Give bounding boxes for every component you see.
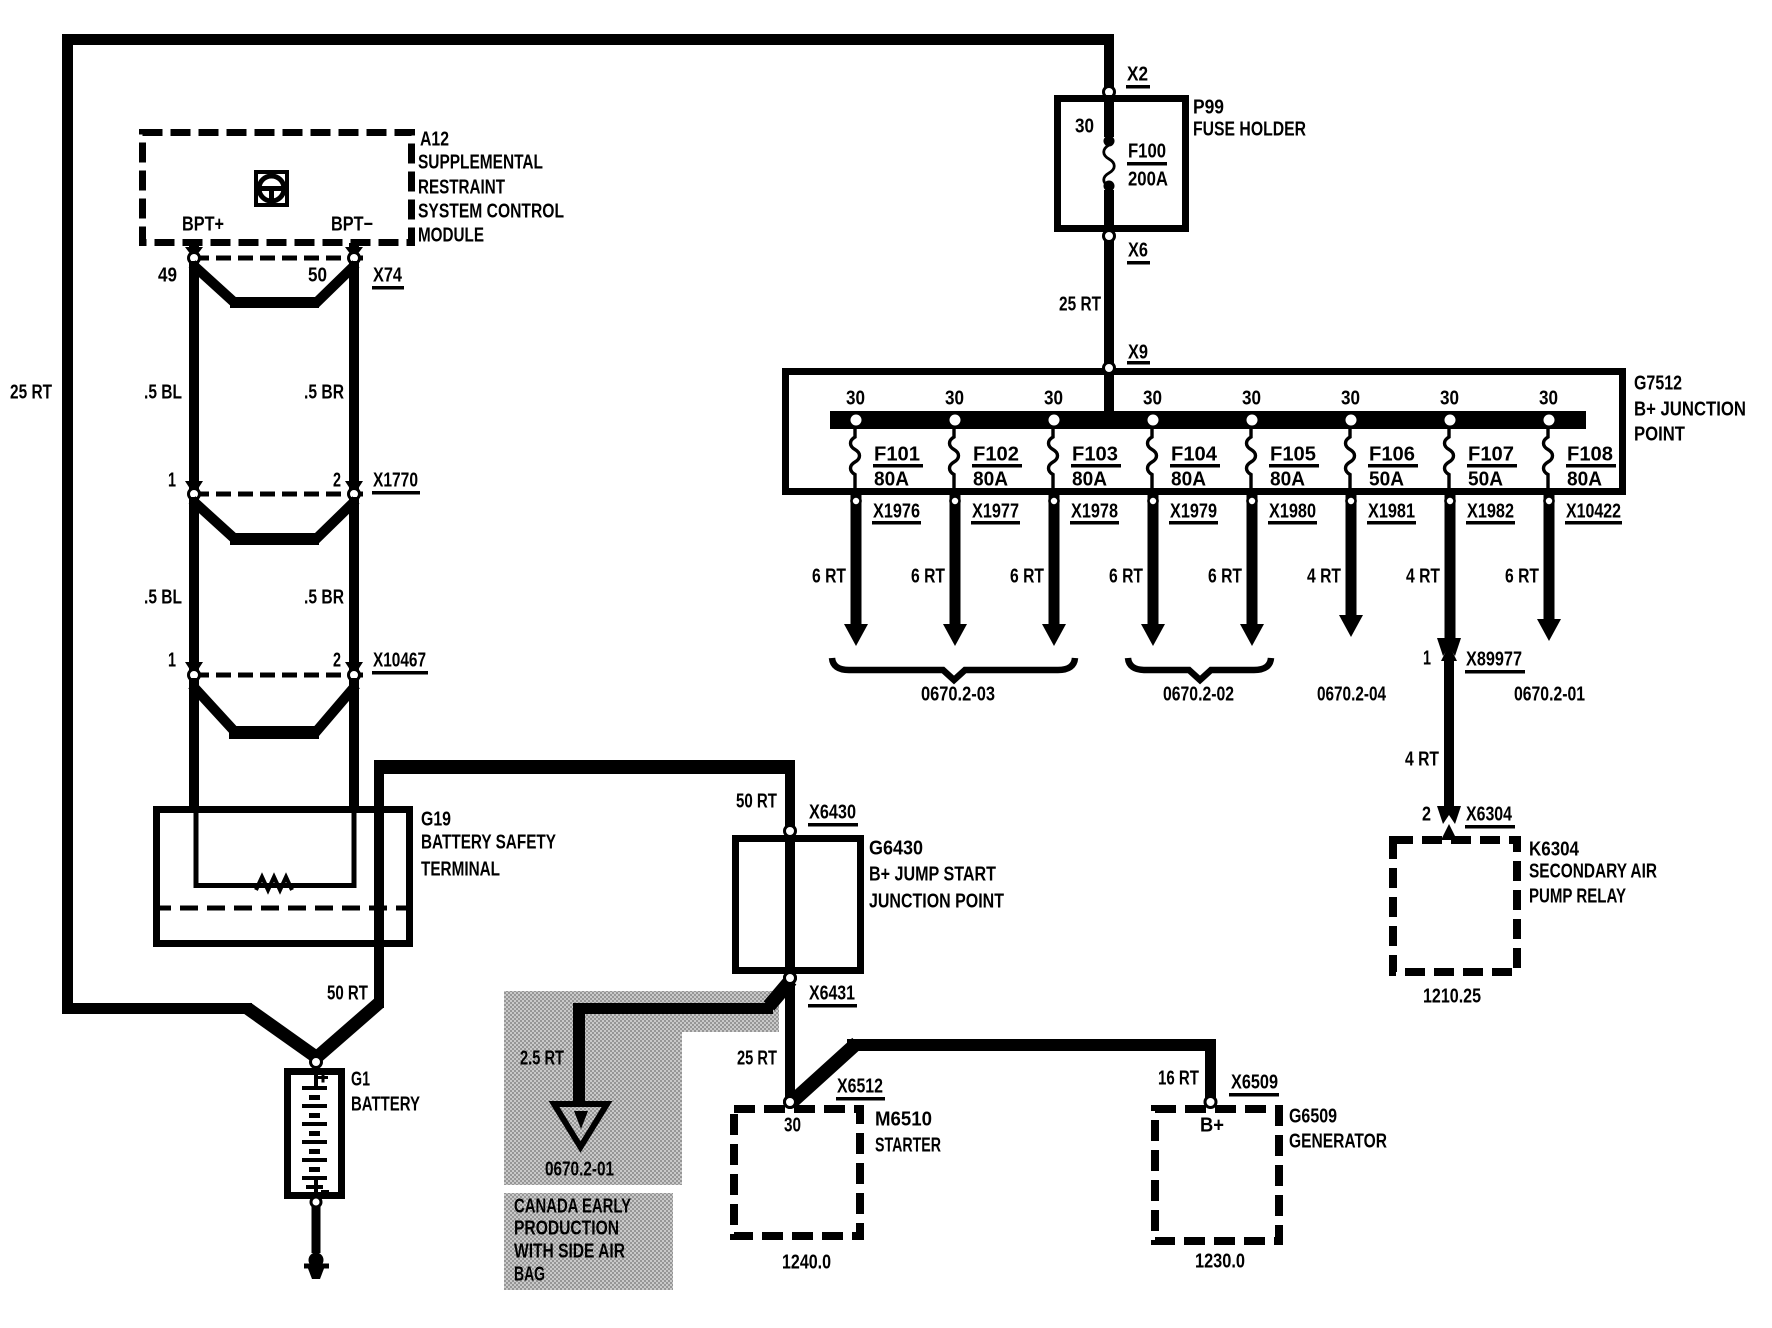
svg-text:K6304: K6304: [1529, 839, 1580, 861]
wire: battery positive left diagonal: [243, 1003, 320, 1063]
svg-text:4 RT: 4 RT: [1406, 566, 1440, 588]
svg-text:B+ JUNCTION: B+ JUNCTION: [1634, 399, 1746, 421]
svg-text:FUSE HOLDER: FUSE HOLDER: [1193, 119, 1306, 141]
B+ distribution bus bar: [830, 411, 1586, 429]
svg-text:F102: F102: [973, 444, 1019, 466]
wire: B+ main supply left riser: [62, 34, 73, 1008]
svg-text:X1978: X1978: [1071, 501, 1118, 523]
wire 16 RT: horizontal run to generator: [847, 1039, 1216, 1051]
svg-text:16 RT: 16 RT: [1158, 1068, 1199, 1090]
svg-text:25 RT: 25 RT: [10, 382, 52, 404]
svg-text:SECONDARY AIR: SECONDARY AIR: [1529, 861, 1657, 883]
svg-text:X1982: X1982: [1467, 501, 1514, 523]
connector X2 node: [1104, 87, 1115, 98]
svg-text:4 RT: 4 RT: [1307, 566, 1341, 588]
wire: drop from top bus to connector X2: [1104, 40, 1114, 92]
pin stub BPT+ into X74: [189, 243, 199, 251]
svg-text:GENERATOR: GENERATOR: [1289, 1131, 1387, 1153]
svg-text:.5 BR: .5 BR: [304, 587, 344, 609]
wire .5 BL (X1770 to X10467): [189, 497, 199, 670]
svg-text:6 RT: 6 RT: [1208, 566, 1242, 588]
connector X1977 node: [951, 497, 960, 506]
component G6509 generator (dashed box): [1155, 1109, 1279, 1241]
component M6510 starter (dashed box): [734, 1109, 860, 1236]
bus tap node (F107): [1445, 415, 1456, 426]
component P99 fuse holder (box): [1058, 99, 1186, 229]
svg-text:50 RT: 50 RT: [736, 791, 777, 813]
fuse F105 80A element: [1247, 429, 1256, 492]
svg-text:X6512: X6512: [837, 1076, 883, 1098]
component G6430 B+ jump start junction point (box): [736, 839, 861, 971]
module A12 supplemental restraint system control module (dashed box): [143, 133, 412, 243]
fuse F107 50A element: [1445, 429, 1454, 492]
fuse F101 80A element: [851, 429, 860, 492]
component G1 battery (case): [288, 1072, 342, 1196]
svg-text:B+ JUMP START: B+ JUMP START: [869, 864, 996, 886]
svg-text:30: 30: [1440, 388, 1459, 410]
svg-text:80A: 80A: [1171, 469, 1206, 491]
svg-text:BATTERY: BATTERY: [351, 1094, 420, 1116]
connector X10467 pin 2 socket: [349, 670, 360, 681]
svg-text:80A: 80A: [1567, 469, 1602, 491]
svg-text:30: 30: [784, 1115, 801, 1137]
wire .5 BL (pin 49 to X1770 pin 1): [189, 261, 199, 489]
X10467 pin 1 terminal arrow: [185, 662, 203, 676]
svg-text:30: 30: [1143, 388, 1162, 410]
wire 6 RT (output of F101) with arrow: [851, 495, 862, 626]
svg-text:0670.2-03: 0670.2-03: [921, 684, 995, 706]
svg-text:G6509: G6509: [1289, 1106, 1337, 1128]
bus tap node (F106): [1346, 415, 1357, 426]
svg-text:2: 2: [333, 650, 341, 672]
svg-text:1: 1: [168, 650, 176, 672]
svg-text:30: 30: [1075, 116, 1094, 138]
svg-text:30: 30: [1242, 388, 1261, 410]
wire: 50 RT down to X6430: [785, 760, 795, 828]
svg-text:1: 1: [1423, 648, 1431, 670]
svg-text:50A: 50A: [1468, 469, 1503, 491]
fuse F100 element (squiggle): [1104, 136, 1115, 147]
svg-text:0670.2-01: 0670.2-01: [1514, 684, 1585, 706]
wire 4 RT (output of F107) to X89977: [1445, 495, 1456, 640]
svg-text:0670.2-01: 0670.2-01: [545, 1159, 614, 1181]
svg-text:.5 BL: .5 BL: [144, 382, 182, 404]
svg-text:PUMP RELAY: PUMP RELAY: [1529, 886, 1626, 908]
svg-text:X6: X6: [1128, 240, 1148, 262]
svg-text:80A: 80A: [1072, 469, 1107, 491]
svg-text:CANADA EARLY: CANADA EARLY: [514, 1196, 631, 1218]
svg-text:G19: G19: [421, 809, 451, 831]
svg-text:50: 50: [308, 265, 327, 287]
svg-text:BATTERY SAFETY: BATTERY SAFETY: [421, 832, 557, 854]
connector X6430 node: [785, 826, 796, 837]
svg-text:1230.0: 1230.0: [1195, 1251, 1245, 1273]
bus tap node (F103): [1049, 415, 1060, 426]
svg-text:30: 30: [1044, 388, 1063, 410]
svg-text:50A: 50A: [1369, 469, 1404, 491]
connector X89977 (inline, F107 wire): [1437, 638, 1461, 656]
connector X9 node on G7512: [1104, 363, 1115, 374]
G19 internal element (squib housing): [196, 810, 354, 886]
harness brace (F101-F103 outputs): [832, 658, 1075, 680]
svg-text:F103: F103: [1072, 444, 1118, 466]
wire (X10467 pin 1 to G19): [189, 678, 199, 808]
wire: F100 to X6: [1104, 190, 1114, 236]
wire 6 RT (output of F105) with arrow: [1247, 495, 1258, 626]
node X6512 at starter terminal 30: [785, 1097, 796, 1108]
svg-text:6 RT: 6 RT: [1505, 566, 1539, 588]
wire 16 RT: starter to generator (diagonal): [793, 1043, 857, 1101]
svg-text:X1979: X1979: [1170, 501, 1217, 523]
icon: steering wheel / airbag symbol inside A12: [256, 172, 287, 205]
bus tap node (F105): [1247, 415, 1258, 426]
svg-text:JUNCTION POINT: JUNCTION POINT: [869, 891, 1004, 913]
wire through G6430: [785, 838, 795, 974]
X10467 pin 2 terminal arrow: [345, 662, 363, 676]
svg-text:SYSTEM CONTROL: SYSTEM CONTROL: [418, 201, 564, 223]
connector X10467 pin 1 socket: [189, 670, 200, 681]
svg-text:P99: P99: [1193, 97, 1224, 119]
svg-text:X10422: X10422: [1566, 501, 1621, 523]
svg-text:MODULE: MODULE: [418, 225, 484, 247]
svg-text:F104: F104: [1171, 444, 1218, 466]
wire: X9 into bus bar: [1104, 372, 1114, 424]
connector X1980 node: [1248, 497, 1257, 506]
option region (gray): Canada early production wiring: [504, 991, 779, 1032]
X1770 pin 1 terminal arrow: [185, 481, 203, 495]
wire 6 RT (output of F104) with arrow: [1148, 495, 1159, 626]
wire: battery negative to ground: [312, 1206, 321, 1253]
wire 25 RT: X6431 to starter: [785, 982, 795, 1102]
svg-text:200A: 200A: [1128, 169, 1168, 191]
wire 2.5 RT: X6431 branch to Canada option: [769, 980, 791, 1006]
svg-text:.5 BL: .5 BL: [144, 587, 182, 609]
bus tap node (F104): [1148, 415, 1159, 426]
wire: 50 RT drop through G19 to battery: [374, 760, 384, 1008]
node X6431 (redraw on top): [785, 973, 796, 984]
svg-text:X1976: X1976: [873, 501, 920, 523]
connector X1976 node: [852, 497, 861, 506]
connector X74 pin 49 socket: [189, 253, 200, 264]
svg-text:TERMINAL: TERMINAL: [421, 859, 500, 881]
wire: X2 into fuse F100: [1104, 95, 1114, 137]
node: battery positive terminal: [311, 1057, 322, 1068]
svg-text:6 RT: 6 RT: [1109, 566, 1143, 588]
svg-text:X74: X74: [373, 265, 403, 287]
battery cell plates: [302, 1086, 327, 1090]
battery positive plate lead and + mark: [314, 1071, 318, 1086]
G19 internal dashed line: [153, 906, 413, 911]
harness brace (F104-F105 outputs): [1128, 658, 1271, 680]
svg-text:BPT−: BPT−: [331, 214, 373, 236]
svg-text:X6304: X6304: [1466, 804, 1513, 826]
svg-text:30: 30: [945, 388, 964, 410]
twisted pair loop symbol below X74: [192, 264, 236, 304]
connector X74 pin 50 socket: [349, 253, 360, 264]
svg-text:X10467: X10467: [373, 650, 426, 672]
svg-text:F107: F107: [1468, 444, 1514, 466]
fuse F103 80A element: [1049, 429, 1058, 492]
battery negative plate lead and - mark: [314, 1178, 318, 1194]
svg-text:F108: F108: [1567, 444, 1613, 466]
svg-text:0670.2-04: 0670.2-04: [1317, 684, 1387, 706]
connector X1982 node: [1446, 497, 1455, 506]
twisted pair loop symbol below X10467: [192, 685, 236, 733]
fuse F104 80A element: [1148, 429, 1157, 492]
wire 6 RT (output of F103) with arrow: [1049, 495, 1060, 626]
wire .5 BR (X1770 to X10467): [349, 497, 359, 670]
svg-text:2.5 RT: 2.5 RT: [520, 1048, 564, 1070]
svg-text:G6430: G6430: [869, 838, 923, 860]
wire: battery positive right diagonal: [312, 998, 384, 1063]
svg-text:G1: G1: [351, 1069, 370, 1091]
connector X1770 pin 2 socket: [349, 489, 360, 500]
svg-text:BPT+: BPT+: [182, 214, 224, 236]
connector X1978 node: [1050, 497, 1059, 506]
connector X10422 node: [1545, 497, 1554, 506]
svg-text:F100: F100: [1128, 141, 1166, 163]
wire 25 RT: X6 to X9: [1104, 240, 1114, 368]
svg-text:1210.25: 1210.25: [1423, 986, 1481, 1008]
svg-text:X6430: X6430: [809, 802, 856, 824]
ground symbol (chassis ground): [304, 1253, 329, 1280]
bus tap node (F102): [950, 415, 961, 426]
svg-text:1240.0: 1240.0: [782, 1252, 831, 1274]
wire 50 RT: G19 to G6430 (B+ jump start feed): [374, 760, 795, 774]
svg-text:2: 2: [1422, 804, 1431, 826]
fuse F108 80A element: [1544, 429, 1553, 492]
svg-text:4 RT: 4 RT: [1405, 749, 1439, 771]
svg-text:X1981: X1981: [1368, 501, 1415, 523]
svg-text:WITH SIDE AIR: WITH SIDE AIR: [514, 1241, 625, 1263]
wire: battery positive V apex: [305, 1050, 327, 1066]
svg-text:X1770: X1770: [373, 470, 418, 492]
relay K6304 secondary air pump relay (dashed box): [1393, 840, 1517, 972]
wire: drop to X6509: [1205, 1039, 1216, 1099]
bus tap node (F108): [1544, 415, 1555, 426]
connector X6431 node: [785, 973, 796, 984]
svg-text:X1977: X1977: [972, 501, 1019, 523]
svg-text:RESTRAINT: RESTRAINT: [418, 177, 505, 199]
connector X1770 pin 1 socket: [189, 489, 200, 500]
wire: B+ main supply top bus (battery + to X2): [62, 34, 1114, 45]
svg-text:PRODUCTION: PRODUCTION: [514, 1218, 619, 1240]
node X6512 (redraw on top): [785, 1097, 796, 1108]
svg-text:80A: 80A: [1270, 469, 1305, 491]
pin stub BPT- into X74: [349, 243, 359, 251]
svg-text:F101: F101: [874, 444, 920, 466]
fuse F106 50A element: [1346, 429, 1355, 492]
svg-text:30: 30: [1341, 388, 1360, 410]
svg-text:B+: B+: [1200, 1115, 1224, 1137]
connector X1979 node: [1149, 497, 1158, 506]
svg-text:6 RT: 6 RT: [1010, 566, 1044, 588]
connector X6 node: [1104, 231, 1115, 242]
connector X1981 node: [1347, 497, 1356, 506]
connector X1770 (dashed separation line): [194, 492, 368, 497]
component G7512 B+ junction point (box): [786, 372, 1623, 492]
svg-text:F105: F105: [1270, 444, 1316, 466]
node X6509 at generator B+: [1205, 1097, 1216, 1108]
bus tap node (F101): [851, 415, 862, 426]
wire .5 BR (pin 50 to X1770 pin 2): [349, 261, 359, 489]
wire 6 RT (output of F108) with arrow: [1544, 495, 1555, 621]
svg-text:2: 2: [333, 470, 341, 492]
svg-text:A12: A12: [420, 129, 449, 151]
svg-text:49: 49: [158, 265, 177, 287]
svg-text:6 RT: 6 RT: [812, 566, 846, 588]
svg-text:80A: 80A: [973, 469, 1008, 491]
svg-text:X1980: X1980: [1269, 501, 1316, 523]
svg-text:30: 30: [1539, 388, 1558, 410]
wire 4 RT (output of F106) with arrow: [1346, 495, 1357, 617]
svg-text:STARTER: STARTER: [875, 1135, 941, 1157]
svg-text:X6509: X6509: [1231, 1072, 1278, 1094]
svg-text:.5 BR: .5 BR: [304, 382, 344, 404]
svg-text:80A: 80A: [874, 469, 909, 491]
wire (X10467 pin 2 to G19): [349, 678, 359, 808]
svg-text:SUPPLEMENTAL: SUPPLEMENTAL: [418, 152, 543, 174]
option note box (gray): CANADA EARLY PRODUCTION WITH SIDE AIR BAG: [504, 1193, 673, 1290]
svg-text:BAG: BAG: [514, 1264, 545, 1286]
svg-text:25 RT: 25 RT: [737, 1048, 777, 1070]
svg-text:30: 30: [846, 388, 865, 410]
wire 6 RT (output of F102) with arrow: [950, 495, 961, 626]
component G19 battery safety terminal (outer box): [157, 810, 410, 944]
X1770 pin 2 terminal arrow: [345, 481, 363, 495]
svg-text:50 RT: 50 RT: [327, 983, 368, 1005]
wire 4 RT: X89977 to X6304: [1444, 658, 1454, 808]
off-page arrow to 0670.2-01 (open arrow): [554, 1104, 607, 1147]
svg-text:G7512: G7512: [1634, 373, 1682, 395]
node: battery negative terminal: [311, 1197, 321, 1207]
svg-text:X9: X9: [1128, 342, 1148, 364]
connector X74 (dashed separation line): [194, 256, 368, 261]
svg-text:6 RT: 6 RT: [911, 566, 945, 588]
connector X10467 (dashed separation line): [194, 673, 368, 678]
wire: bottom run to battery positive: [62, 1003, 252, 1014]
svg-text:1: 1: [168, 470, 176, 492]
twisted pair loop symbol below X1770: [192, 500, 236, 540]
svg-text:M6510: M6510: [875, 1109, 932, 1131]
svg-text:X89977: X89977: [1466, 649, 1522, 671]
svg-text:X6431: X6431: [809, 983, 855, 1005]
svg-text:25 RT: 25 RT: [1059, 294, 1101, 316]
svg-text:0670.2-02: 0670.2-02: [1163, 684, 1234, 706]
fuse F102 80A element: [950, 429, 959, 492]
svg-text:F106: F106: [1369, 444, 1415, 466]
connector X6304 (inline at relay): [1437, 806, 1461, 824]
svg-text:X2: X2: [1127, 64, 1148, 86]
svg-text:POINT: POINT: [1634, 424, 1685, 446]
G19 pyrotechnic squib zigzag: [256, 877, 292, 890]
